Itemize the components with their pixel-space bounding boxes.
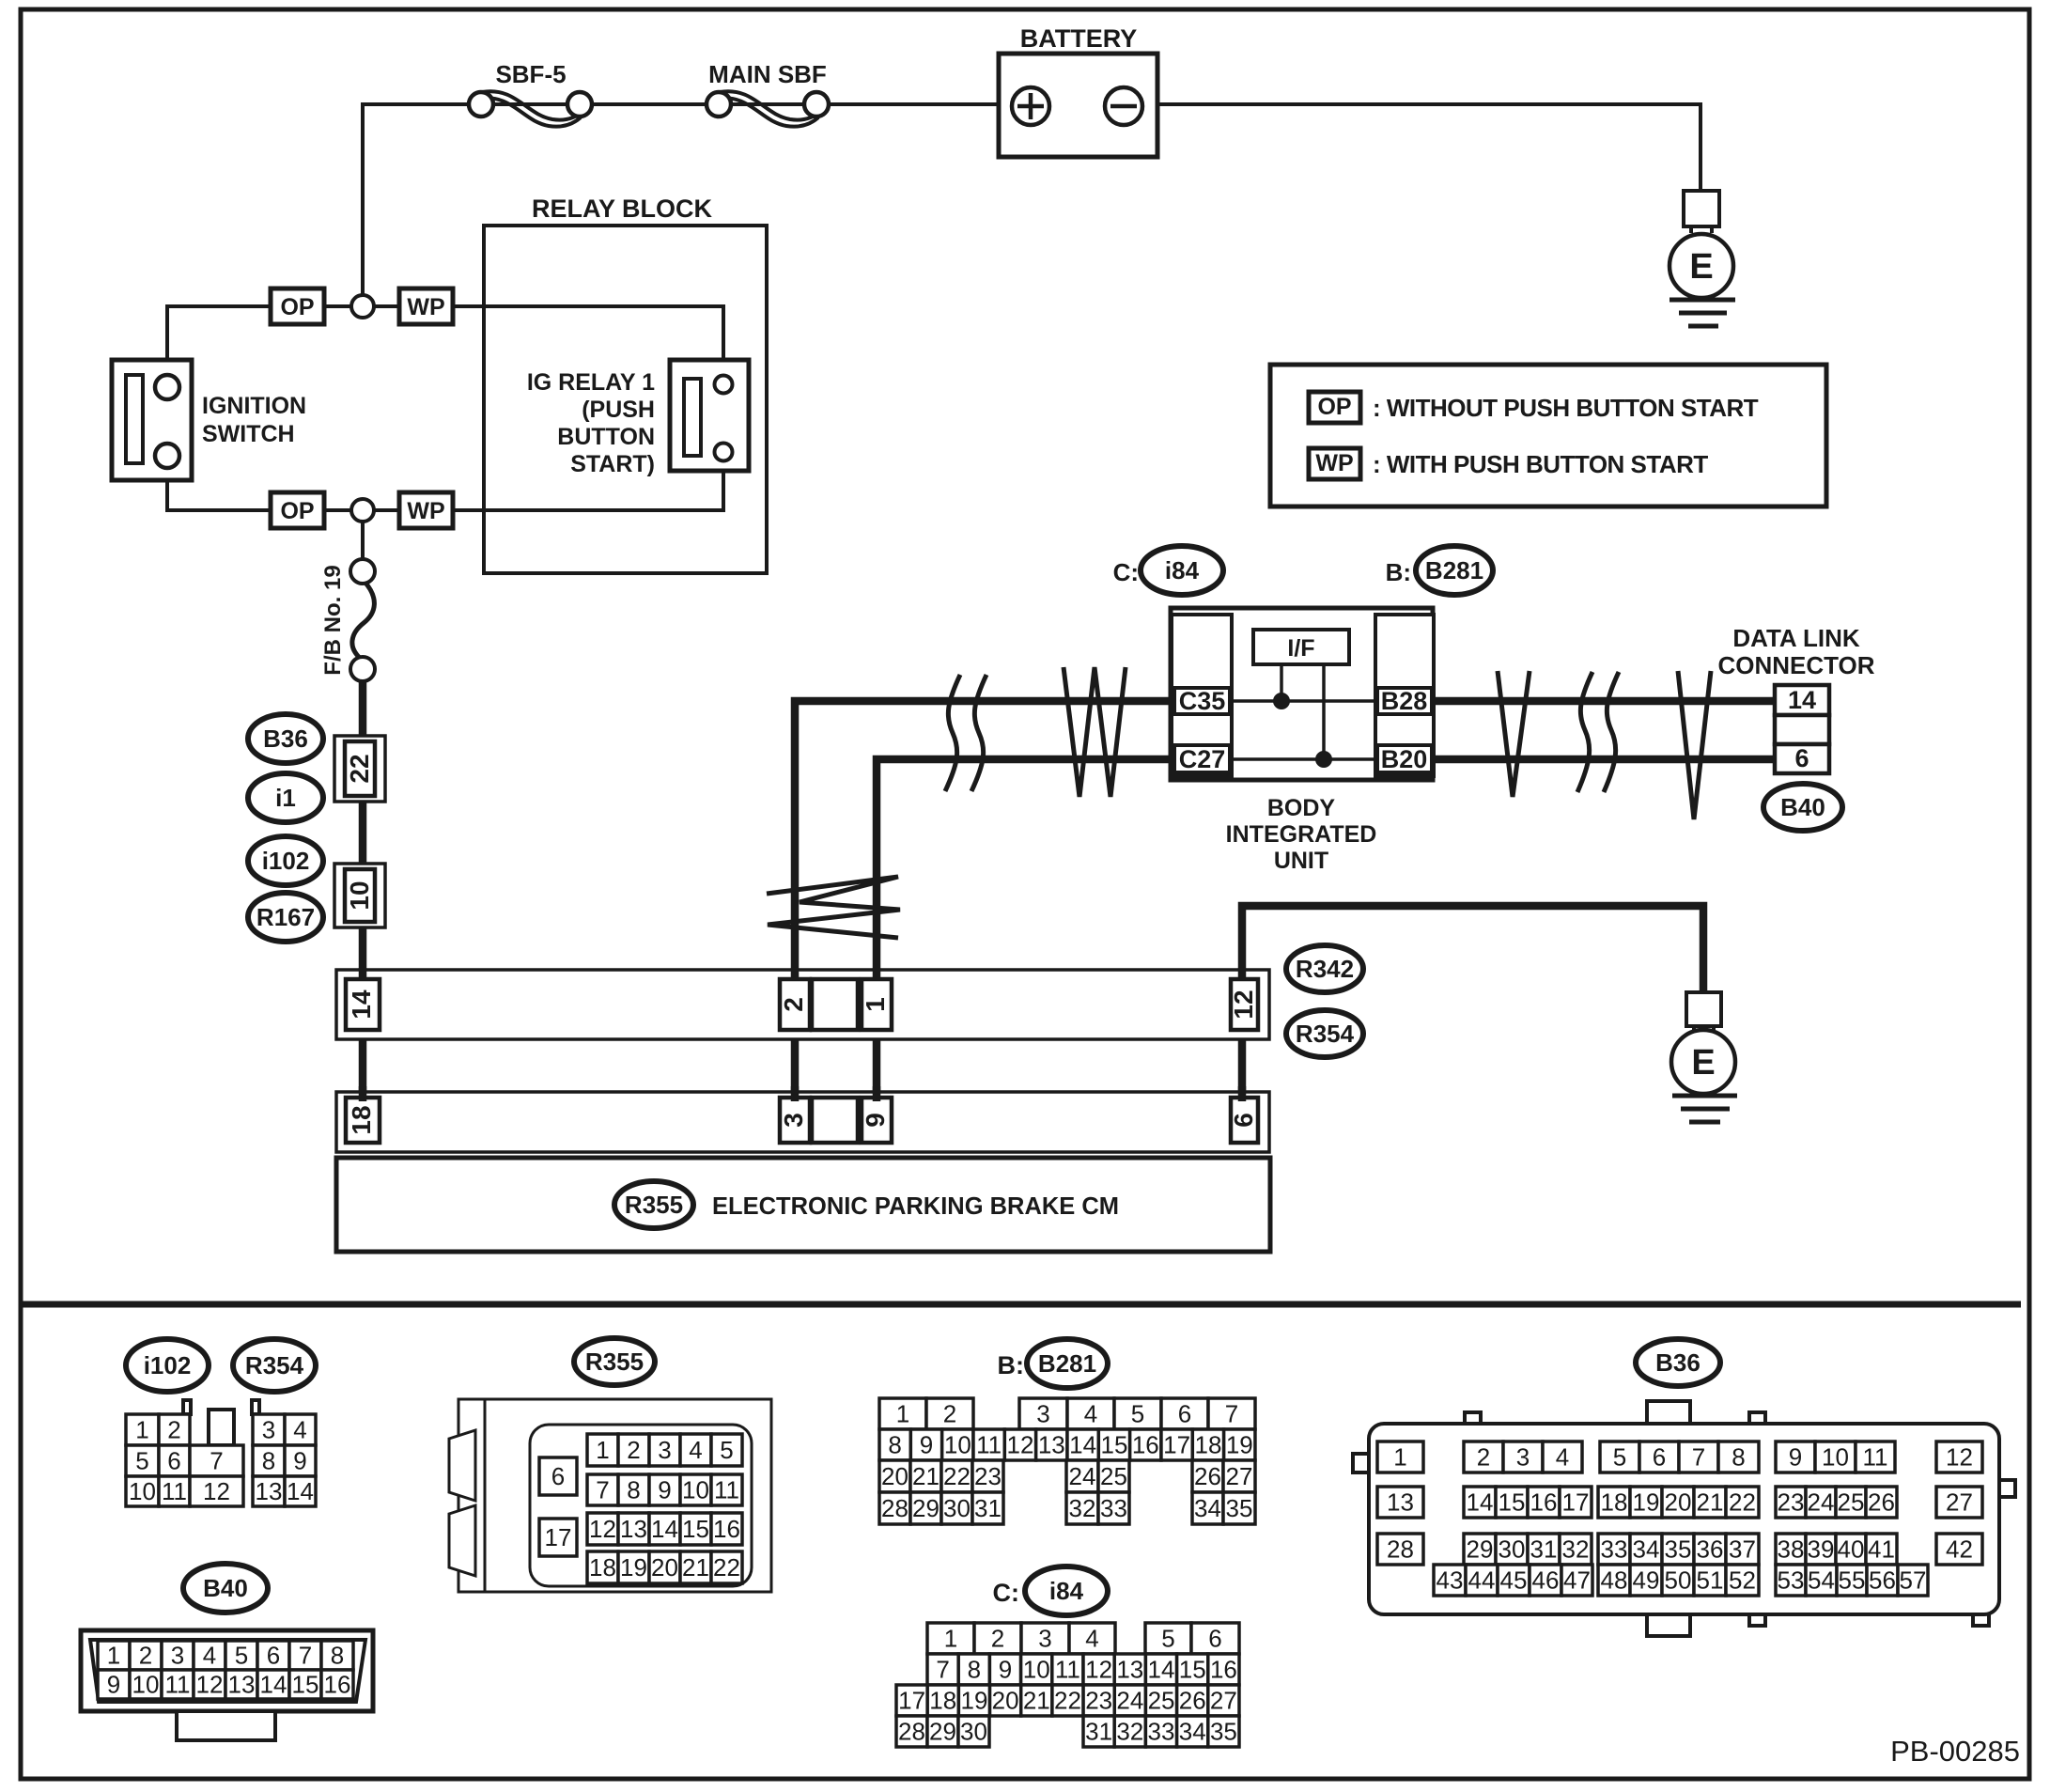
svg-text:4: 4 bbox=[293, 1416, 306, 1444]
svg-text:51: 51 bbox=[1697, 1566, 1724, 1595]
svg-text:i102: i102 bbox=[144, 1351, 192, 1379]
svg-text:15: 15 bbox=[292, 1671, 319, 1699]
svg-text:40: 40 bbox=[1838, 1535, 1865, 1564]
svg-text:22: 22 bbox=[1729, 1488, 1756, 1517]
label R354 (schematic) bbox=[1286, 1010, 1363, 1057]
electronic parking brake CM unit R355 bbox=[336, 1158, 1270, 1252]
svg-text:11: 11 bbox=[976, 1431, 1002, 1459]
node junction bottom row bbox=[351, 499, 374, 522]
pin 1 bbox=[862, 979, 892, 1030]
label i102 (pinout) bbox=[126, 1339, 209, 1392]
pin 2 bbox=[780, 979, 810, 1030]
label R342 (schematic) bbox=[1286, 945, 1363, 992]
svg-text:32: 32 bbox=[1562, 1535, 1590, 1564]
tab right bbox=[252, 1400, 259, 1414]
svg-text:5: 5 bbox=[135, 1447, 148, 1475]
connector strip C (i84) on BIU bbox=[1172, 615, 1232, 776]
wire BIU B20 to DLC 6 bbox=[1428, 756, 1778, 764]
svg-text:11: 11 bbox=[1055, 1656, 1080, 1684]
wire EPB pin12 to ground E2 bbox=[1242, 906, 1703, 994]
svg-text:5: 5 bbox=[720, 1436, 733, 1464]
svg-text:DATA LINK: DATA LINK bbox=[1732, 624, 1859, 652]
wire EPB pin12 to pin6 bbox=[1238, 1024, 1247, 1118]
svg-text:6: 6 bbox=[1208, 1625, 1221, 1653]
svg-text:5: 5 bbox=[235, 1642, 248, 1670]
svg-text:3: 3 bbox=[171, 1642, 184, 1670]
svg-text:13: 13 bbox=[1387, 1488, 1414, 1517]
svg-text:R355: R355 bbox=[625, 1191, 683, 1219]
svg-text:27: 27 bbox=[1226, 1462, 1253, 1490]
svg-text:49: 49 bbox=[1633, 1566, 1660, 1595]
svg-text:10: 10 bbox=[345, 880, 374, 910]
svg-text:15: 15 bbox=[1179, 1656, 1206, 1684]
break symbol parens (left CAN wires) bbox=[945, 675, 960, 791]
svg-text:54: 54 bbox=[1808, 1566, 1835, 1595]
svg-text:F/B No. 19: F/B No. 19 bbox=[320, 565, 346, 675]
pin B28 bbox=[1377, 688, 1432, 714]
svg-text:13: 13 bbox=[256, 1477, 283, 1505]
svg-text:5: 5 bbox=[1161, 1625, 1174, 1653]
svg-text:ELECTRONIC PARKING BRAKE CM: ELECTRONIC PARKING BRAKE CM bbox=[712, 1193, 1119, 1220]
pin 18 bbox=[346, 1098, 380, 1143]
svg-text:21: 21 bbox=[1697, 1488, 1724, 1517]
pin 14 of DLC bbox=[1775, 685, 1829, 715]
svg-text:8: 8 bbox=[888, 1431, 901, 1459]
fuse SBF-5 bbox=[482, 91, 583, 119]
svg-text:INTEGRATED: INTEGRATED bbox=[1226, 821, 1377, 848]
svg-text:OP: OP bbox=[280, 498, 314, 524]
label B40 (pinout) bbox=[183, 1564, 268, 1613]
pin 6 bbox=[1231, 1098, 1258, 1143]
svg-text:28: 28 bbox=[1387, 1535, 1414, 1564]
wire internal BIU bus upper bbox=[1230, 699, 1377, 703]
svg-text:6: 6 bbox=[167, 1447, 180, 1475]
svg-text:19: 19 bbox=[960, 1687, 987, 1715]
svg-text:14: 14 bbox=[1467, 1488, 1494, 1517]
tab left bbox=[183, 1400, 191, 1414]
svg-text:7: 7 bbox=[596, 1476, 609, 1504]
svg-text:1: 1 bbox=[861, 997, 890, 1012]
svg-text:53: 53 bbox=[1778, 1566, 1805, 1595]
svg-text:C35: C35 bbox=[1179, 687, 1226, 715]
svg-text:21: 21 bbox=[912, 1462, 940, 1490]
svg-text:32: 32 bbox=[1069, 1494, 1096, 1522]
svg-text:2: 2 bbox=[139, 1642, 152, 1670]
connector bar row 1 (R342) of EPB CM bbox=[336, 970, 1269, 1039]
svg-text:(PUSH: (PUSH bbox=[582, 397, 655, 423]
wire stub pin3 bbox=[791, 1086, 800, 1101]
svg-text:12: 12 bbox=[1085, 1656, 1112, 1684]
connector tag OP (bottom row) bbox=[271, 492, 324, 528]
connector tag WP (top row) bbox=[399, 288, 453, 324]
svg-text:24: 24 bbox=[1116, 1687, 1143, 1715]
svg-text:7: 7 bbox=[210, 1447, 223, 1475]
legend tag WP bbox=[1309, 448, 1360, 479]
wire I/F right leg bbox=[1322, 664, 1326, 759]
svg-text:48: 48 bbox=[1601, 1566, 1628, 1595]
svg-text:20: 20 bbox=[1665, 1488, 1692, 1517]
svg-text:5: 5 bbox=[1613, 1443, 1626, 1472]
svg-text:3: 3 bbox=[1036, 1400, 1049, 1428]
svg-text:OP: OP bbox=[280, 294, 314, 320]
svg-text:12: 12 bbox=[1007, 1431, 1034, 1459]
svg-text:33: 33 bbox=[1148, 1718, 1175, 1746]
svg-text:20: 20 bbox=[992, 1687, 1019, 1715]
svg-text:16: 16 bbox=[324, 1671, 351, 1699]
svg-text:R354: R354 bbox=[1296, 1020, 1355, 1048]
svg-text:3: 3 bbox=[262, 1416, 275, 1444]
svg-text:18: 18 bbox=[347, 1105, 376, 1134]
svg-text:32: 32 bbox=[1116, 1718, 1143, 1746]
tab top small right bbox=[1749, 1412, 1765, 1425]
pin blank row1 bbox=[812, 979, 858, 1030]
wire ignition row 1 (OP/WP top) bbox=[167, 306, 723, 387]
wire I/F left leg bbox=[1280, 664, 1283, 701]
svg-text:B36: B36 bbox=[1655, 1348, 1701, 1377]
svg-text:8: 8 bbox=[968, 1656, 981, 1684]
label R354 (pinout) bbox=[233, 1339, 316, 1392]
svg-text:22: 22 bbox=[1054, 1687, 1081, 1715]
svg-text:9: 9 bbox=[293, 1447, 306, 1475]
notch middle bbox=[209, 1410, 234, 1445]
wire stub pin12 bbox=[1238, 968, 1247, 981]
svg-text:8: 8 bbox=[262, 1447, 275, 1475]
wire stub pin14 bbox=[359, 968, 367, 981]
relay block box bbox=[484, 226, 767, 573]
svg-text:13: 13 bbox=[228, 1671, 256, 1699]
svg-text:SWITCH: SWITCH bbox=[202, 421, 295, 447]
svg-text:18: 18 bbox=[929, 1687, 956, 1715]
wire stub pin9 bbox=[873, 1086, 881, 1101]
svg-text:2: 2 bbox=[943, 1400, 956, 1428]
svg-text:14: 14 bbox=[1148, 1656, 1175, 1684]
svg-text:21: 21 bbox=[682, 1553, 709, 1582]
connector tag WP (bottom row) bbox=[399, 492, 453, 528]
svg-text:12: 12 bbox=[1229, 989, 1258, 1019]
svg-text:6: 6 bbox=[1178, 1400, 1191, 1428]
svg-text:24: 24 bbox=[1069, 1462, 1096, 1490]
svg-text:16: 16 bbox=[1530, 1488, 1558, 1517]
svg-text:23: 23 bbox=[1778, 1488, 1805, 1517]
svg-text:45: 45 bbox=[1500, 1566, 1528, 1595]
wire stub pin6 bbox=[1238, 1086, 1247, 1101]
svg-text:34: 34 bbox=[1179, 1718, 1206, 1746]
svg-text:PB-00285: PB-00285 bbox=[1890, 1735, 2020, 1768]
label i1 (schematic) bbox=[248, 773, 323, 822]
connector pin 10 (i102 / R167) bbox=[334, 864, 385, 927]
svg-text:B28: B28 bbox=[1381, 687, 1428, 715]
svg-text:26: 26 bbox=[1179, 1687, 1206, 1715]
connector pinout R355 bbox=[458, 1399, 771, 1592]
svg-text:2: 2 bbox=[627, 1436, 640, 1464]
label i102 (schematic) bbox=[248, 836, 323, 885]
svg-text:6: 6 bbox=[1653, 1443, 1666, 1472]
svg-text:7: 7 bbox=[299, 1642, 312, 1670]
label B40 (schematic) bbox=[1763, 784, 1842, 831]
pin B20 bbox=[1377, 745, 1432, 772]
svg-text:13: 13 bbox=[1038, 1431, 1065, 1459]
fuse MAIN SBF bbox=[720, 91, 821, 119]
pin C35 bbox=[1174, 688, 1230, 714]
wire F/B fuse down to EPB CM pin 14 bbox=[359, 681, 367, 1118]
svg-text:B36: B36 bbox=[263, 725, 308, 753]
svg-text:47: 47 bbox=[1563, 1566, 1591, 1595]
svg-text:R355: R355 bbox=[585, 1348, 644, 1376]
connector strip B (B281) on BIU bbox=[1375, 615, 1434, 776]
wire EPB pin1 up to BIU C27 bbox=[877, 759, 1180, 1118]
relay IG RELAY 1 bbox=[670, 360, 749, 471]
wire junction to F/B fuse bbox=[361, 522, 365, 564]
svg-text:SBF-5: SBF-5 bbox=[495, 60, 566, 88]
svg-text:11: 11 bbox=[714, 1476, 739, 1504]
svg-text:B20: B20 bbox=[1381, 745, 1428, 773]
svg-text:6: 6 bbox=[267, 1642, 280, 1670]
svg-text:3: 3 bbox=[779, 1113, 808, 1128]
svg-text:16: 16 bbox=[1210, 1656, 1237, 1684]
svg-text:19: 19 bbox=[620, 1553, 647, 1582]
node junction top row bbox=[351, 295, 374, 318]
svg-text:35: 35 bbox=[1665, 1535, 1692, 1564]
svg-text:14: 14 bbox=[651, 1515, 678, 1543]
svg-text:2: 2 bbox=[991, 1625, 1004, 1653]
svg-text:2: 2 bbox=[167, 1416, 180, 1444]
svg-text:1: 1 bbox=[135, 1416, 148, 1444]
svg-text:26: 26 bbox=[1194, 1462, 1221, 1490]
label B36 (pinout) bbox=[1636, 1339, 1720, 1386]
svg-text:E: E bbox=[1691, 1043, 1715, 1083]
svg-text:i84: i84 bbox=[1049, 1577, 1084, 1605]
wire stub pin1 bbox=[873, 968, 881, 981]
connector pinout B281 bbox=[879, 1398, 926, 1429]
svg-text:18: 18 bbox=[1195, 1431, 1222, 1459]
svg-text:50: 50 bbox=[1665, 1566, 1692, 1595]
svg-text:14: 14 bbox=[1069, 1431, 1096, 1459]
svg-text:13: 13 bbox=[620, 1515, 647, 1543]
pin 9 bbox=[862, 1098, 892, 1143]
svg-text:12: 12 bbox=[196, 1671, 224, 1699]
svg-text:35: 35 bbox=[1226, 1494, 1253, 1522]
svg-text:10: 10 bbox=[944, 1431, 971, 1459]
pin 12 bbox=[1231, 979, 1258, 1030]
svg-text:28: 28 bbox=[881, 1494, 909, 1522]
pin 3 bbox=[780, 1098, 810, 1143]
svg-text:18: 18 bbox=[589, 1553, 616, 1582]
svg-text:9: 9 bbox=[861, 1113, 890, 1128]
svg-text:9: 9 bbox=[999, 1656, 1012, 1684]
svg-text:44: 44 bbox=[1468, 1566, 1496, 1595]
svg-text:4: 4 bbox=[1556, 1443, 1569, 1472]
svg-text:2: 2 bbox=[1477, 1443, 1490, 1472]
svg-text:E: E bbox=[1689, 247, 1713, 287]
svg-text:16: 16 bbox=[713, 1515, 740, 1543]
battery - terminal bbox=[1105, 87, 1142, 125]
node junction I/F-C35 bbox=[1274, 693, 1290, 709]
svg-text:18: 18 bbox=[1601, 1488, 1628, 1517]
fuse F/B No. 19 bbox=[352, 582, 375, 659]
connector pin 22 (B36 / i1) bbox=[334, 736, 385, 802]
svg-text:8: 8 bbox=[331, 1642, 344, 1670]
svg-text:CONNECTOR: CONNECTOR bbox=[1717, 651, 1874, 679]
connector tag OP (top row) bbox=[271, 288, 324, 324]
svg-text:29: 29 bbox=[912, 1494, 940, 1522]
svg-text:BODY: BODY bbox=[1267, 795, 1336, 821]
svg-text:2: 2 bbox=[779, 997, 808, 1012]
svg-text:38: 38 bbox=[1778, 1535, 1805, 1564]
ignition switch bbox=[112, 360, 192, 480]
tab bottom center bbox=[1647, 1613, 1690, 1636]
svg-text:13: 13 bbox=[1116, 1656, 1143, 1684]
wire BIU B28 to DLC 14 bbox=[1428, 697, 1778, 706]
break symbol V (right CAN wires, right) bbox=[1678, 671, 1711, 819]
svg-text:52: 52 bbox=[1729, 1566, 1756, 1595]
pin blank row2 bbox=[812, 1098, 858, 1143]
label R355 (pinout) bbox=[574, 1338, 655, 1385]
separator line between schematic and pinouts bbox=[23, 1301, 2021, 1308]
wire EPB pin2 up to BIU C35 bbox=[795, 701, 1180, 1118]
svg-text:7: 7 bbox=[1692, 1443, 1705, 1472]
connector pinout B40 bbox=[81, 1630, 373, 1711]
svg-text:1: 1 bbox=[944, 1625, 957, 1653]
svg-text:17: 17 bbox=[545, 1523, 572, 1551]
svg-text:B281: B281 bbox=[1425, 556, 1483, 584]
svg-text:15: 15 bbox=[1101, 1431, 1128, 1459]
svg-text:25: 25 bbox=[1100, 1462, 1127, 1490]
svg-text:B281: B281 bbox=[1038, 1349, 1096, 1378]
tab bottom far right bbox=[1973, 1613, 1989, 1626]
svg-text:11: 11 bbox=[1863, 1443, 1888, 1472]
pin 6 of DLC bbox=[1775, 744, 1829, 773]
node junction I/F-B20 bbox=[1316, 752, 1332, 768]
svg-text:B:: B: bbox=[1386, 558, 1411, 586]
svg-text:R342: R342 bbox=[1296, 955, 1354, 983]
svg-text:4: 4 bbox=[1085, 1625, 1098, 1653]
wire stub pin18 bbox=[359, 1086, 367, 1101]
svg-text:31: 31 bbox=[1085, 1718, 1112, 1746]
ground E1 bbox=[1684, 191, 1719, 226]
svg-text:17: 17 bbox=[898, 1687, 925, 1715]
svg-text:55: 55 bbox=[1839, 1566, 1866, 1595]
svg-text:6: 6 bbox=[551, 1462, 565, 1490]
svg-text:1: 1 bbox=[107, 1642, 120, 1670]
svg-text:30: 30 bbox=[960, 1718, 987, 1746]
svg-text:11: 11 bbox=[162, 1477, 187, 1505]
svg-text:19: 19 bbox=[1226, 1431, 1253, 1459]
svg-text:41: 41 bbox=[1868, 1535, 1895, 1564]
label R167 (schematic) bbox=[248, 893, 323, 942]
svg-text:34: 34 bbox=[1633, 1535, 1660, 1564]
svg-text:i102: i102 bbox=[262, 847, 310, 875]
svg-text:57: 57 bbox=[1900, 1566, 1927, 1595]
ground E2 bbox=[1686, 992, 1721, 1026]
svg-text:37: 37 bbox=[1729, 1535, 1756, 1564]
svg-text:10: 10 bbox=[132, 1671, 160, 1699]
svg-text:WP: WP bbox=[1315, 450, 1353, 476]
svg-text:15: 15 bbox=[682, 1515, 709, 1543]
svg-text:14: 14 bbox=[287, 1477, 314, 1505]
svg-text:22: 22 bbox=[713, 1553, 740, 1582]
break symbol W zigzag (left CAN wires) bbox=[1064, 667, 1126, 797]
svg-text:B40: B40 bbox=[1780, 793, 1825, 821]
svg-text:B:: B: bbox=[998, 1351, 1025, 1379]
svg-text:22: 22 bbox=[345, 754, 374, 783]
svg-text:4: 4 bbox=[1084, 1400, 1097, 1428]
wire internal BIU bus lower bbox=[1230, 757, 1377, 761]
svg-text:30: 30 bbox=[1499, 1535, 1526, 1564]
pin C27 bbox=[1174, 745, 1230, 772]
svg-text:10: 10 bbox=[682, 1476, 709, 1504]
svg-text:34: 34 bbox=[1194, 1494, 1221, 1522]
svg-text:C:: C: bbox=[993, 1579, 1020, 1607]
svg-text:6: 6 bbox=[1794, 744, 1809, 772]
svg-text:9: 9 bbox=[658, 1476, 671, 1504]
svg-text:43: 43 bbox=[1437, 1566, 1464, 1595]
svg-text:4: 4 bbox=[203, 1642, 216, 1670]
svg-text:B40: B40 bbox=[203, 1574, 248, 1602]
svg-text:23: 23 bbox=[974, 1462, 1002, 1490]
svg-text:8: 8 bbox=[627, 1476, 640, 1504]
svg-text:29: 29 bbox=[1467, 1535, 1494, 1564]
svg-text:I/F: I/F bbox=[1287, 635, 1314, 662]
wire stub pin2 bbox=[791, 968, 800, 981]
svg-text:BATTERY: BATTERY bbox=[1020, 24, 1138, 53]
legend box bbox=[1270, 365, 1826, 506]
svg-text:7: 7 bbox=[1225, 1400, 1238, 1428]
battery box bbox=[999, 54, 1157, 157]
tab left side bbox=[1353, 1454, 1370, 1473]
svg-text:31: 31 bbox=[974, 1494, 1002, 1522]
svg-text:START): START) bbox=[570, 451, 655, 477]
svg-text:17: 17 bbox=[1163, 1431, 1190, 1459]
svg-text:: WITHOUT PUSH BUTTON START: : WITHOUT PUSH BUTTON START bbox=[1373, 394, 1759, 422]
svg-text:WP: WP bbox=[407, 498, 444, 524]
svg-text:33: 33 bbox=[1601, 1535, 1628, 1564]
svg-text:12: 12 bbox=[1946, 1443, 1973, 1472]
svg-text:35: 35 bbox=[1210, 1718, 1237, 1746]
svg-text:17: 17 bbox=[1562, 1488, 1590, 1517]
svg-text:: WITH PUSH BUTTON START: : WITH PUSH BUTTON START bbox=[1373, 450, 1708, 478]
svg-text:WP: WP bbox=[407, 294, 444, 320]
svg-text:3: 3 bbox=[658, 1436, 671, 1464]
svg-text:20: 20 bbox=[881, 1462, 909, 1490]
break symbol V (right CAN wires, left) bbox=[1498, 671, 1530, 797]
tab bottom of B40 bbox=[177, 1711, 275, 1740]
battery + terminal bbox=[1012, 87, 1049, 125]
svg-text:42: 42 bbox=[1946, 1535, 1973, 1564]
svg-text:12: 12 bbox=[203, 1477, 230, 1505]
svg-text:31: 31 bbox=[1530, 1535, 1558, 1564]
svg-text:39: 39 bbox=[1808, 1535, 1835, 1564]
svg-text:22: 22 bbox=[943, 1462, 971, 1490]
svg-text:33: 33 bbox=[1100, 1494, 1127, 1522]
svg-text:RELAY BLOCK: RELAY BLOCK bbox=[532, 195, 713, 223]
svg-text:6: 6 bbox=[1229, 1113, 1258, 1128]
svg-text:1: 1 bbox=[1393, 1443, 1406, 1472]
svg-text:9: 9 bbox=[920, 1431, 933, 1459]
svg-text:29: 29 bbox=[929, 1718, 956, 1746]
svg-text:IGNITION: IGNITION bbox=[202, 393, 306, 419]
label B36 (schematic) bbox=[248, 714, 323, 763]
svg-text:9: 9 bbox=[1789, 1443, 1802, 1472]
svg-text:8: 8 bbox=[1732, 1443, 1745, 1472]
tab top center bbox=[1647, 1401, 1690, 1425]
svg-text:14: 14 bbox=[1788, 686, 1816, 714]
svg-text:5: 5 bbox=[1131, 1400, 1144, 1428]
svg-text:21: 21 bbox=[1023, 1687, 1050, 1715]
svg-text:30: 30 bbox=[943, 1494, 971, 1522]
svg-text:10: 10 bbox=[1822, 1443, 1849, 1472]
svg-text:15: 15 bbox=[1499, 1488, 1526, 1517]
wire ignition row 2 (OP/WP bottom) bbox=[167, 449, 723, 510]
